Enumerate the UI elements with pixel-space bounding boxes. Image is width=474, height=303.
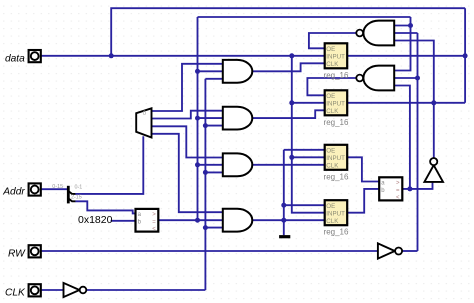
svg-text:CLK: CLK <box>326 108 339 115</box>
pin CLK <box>5 284 41 298</box>
node comp2 out junction <box>407 186 412 191</box>
wire reg2 out <box>347 102 465 104</box>
svg-text:>: > <box>152 212 156 218</box>
wire nand1 in2 <box>394 32 417 34</box>
svg-text:reg_16: reg_16 <box>324 71 349 80</box>
node gate3 mid junction <box>195 162 200 167</box>
wire gate3 top feed <box>152 126 223 157</box>
wire clkgate vertical <box>204 79 206 290</box>
svg-text:INPUT: INPUT <box>326 101 345 108</box>
wire CLK inverted <box>86 289 205 291</box>
comparator U2 <box>379 177 402 201</box>
wire gate3 out <box>252 164 324 166</box>
wire reg4 out to comp <box>347 189 379 213</box>
node reg2 input junction <box>289 100 294 105</box>
wire match top <box>198 16 411 18</box>
and gate U4 <box>223 107 253 130</box>
wire gate2 out <box>252 110 324 118</box>
node gate2 mid junction <box>195 116 200 121</box>
wire splitter leg1 to decoder select <box>75 136 143 194</box>
wire reg3 out to comp <box>347 157 379 181</box>
svg-text:data: data <box>5 53 25 64</box>
svg-text:reg_16: reg_16 <box>324 172 349 181</box>
wire reg4 OE gnd <box>284 204 325 206</box>
register REG4 <box>324 200 349 237</box>
svg-text:INPUT: INPUT <box>326 54 345 61</box>
register REG2 <box>324 90 349 127</box>
svg-text:OE: OE <box>326 93 335 100</box>
svg-text:OE: OE <box>326 46 335 53</box>
pin Addr <box>2 183 41 197</box>
svg-text:CLK: CLK <box>326 163 339 170</box>
wire gate1 top feed <box>152 64 223 111</box>
svg-text:reg_16: reg_16 <box>324 228 349 237</box>
wire reg2 input <box>292 102 325 104</box>
svg-text:Addr: Addr <box>2 187 25 198</box>
wire gate1 out <box>252 63 324 71</box>
svg-text:0x1820: 0x1820 <box>78 214 113 226</box>
svg-text:OE: OE <box>326 203 335 210</box>
svg-text:OE: OE <box>326 148 335 155</box>
wire gate2 bot feed <box>205 125 222 127</box>
node gnd gate4out junction <box>281 218 286 223</box>
wire nand2 in2 riser <box>417 33 419 251</box>
wire gate2 mid feed <box>198 117 223 119</box>
svg-text:reg_16: reg_16 <box>324 118 349 127</box>
svg-text:0-15: 0-15 <box>52 184 63 190</box>
wire gate2 top feed <box>152 111 223 119</box>
inverter U10 RW <box>378 243 402 258</box>
wire reg1 out <box>347 55 465 57</box>
node gate4 mid junction <box>195 218 200 223</box>
inverter U9 facing up <box>424 158 443 182</box>
node reg4 OE junction <box>281 203 286 208</box>
wire data right riser <box>464 8 466 103</box>
wire nand2 in2 <box>394 77 417 79</box>
comparator U1 <box>136 209 159 233</box>
wire gate4 out <box>252 219 324 221</box>
svg-text:2-15: 2-15 <box>71 195 82 201</box>
node gate2 bot junction <box>203 123 208 128</box>
wire nand1 in1 <box>394 25 410 27</box>
node data riser junction <box>109 53 114 58</box>
wire gate3 mid feed <box>198 164 223 166</box>
wire reg3 input <box>292 156 325 158</box>
wire comp2 out <box>402 182 432 189</box>
wire data horizontal <box>41 55 325 57</box>
wire splitter leg2 to comp1 a <box>75 201 135 213</box>
svg-text:<: < <box>396 195 400 201</box>
wire nand1 out to reg1 OE <box>309 33 356 48</box>
wire nand2 out to reg2 OE <box>307 78 356 95</box>
svg-text:CLK: CLK <box>326 218 339 225</box>
svg-text:=: = <box>152 219 156 225</box>
node nand1 in1 junction <box>408 23 413 28</box>
wire Addr <box>41 188 68 190</box>
wire const to comp1 b <box>111 220 136 222</box>
pin data <box>5 50 41 64</box>
node nand2 in2 junction <box>415 76 420 81</box>
svg-text:INPUT: INPUT <box>326 155 345 162</box>
wire nand1 in1 riser <box>394 17 410 71</box>
wire notup out <box>394 41 434 158</box>
wire reg3 OE gnd <box>284 149 325 151</box>
node gate1 mid junction <box>195 69 200 74</box>
node reg3 input junction <box>289 155 294 160</box>
svg-text:>: > <box>396 181 400 187</box>
JUNCTIONS_LAYER <box>109 23 468 230</box>
inverter U11 CLK <box>64 283 87 297</box>
wire RW <box>41 250 378 252</box>
svg-text:<: < <box>152 227 156 233</box>
wire gate4 bot feed <box>205 227 222 229</box>
svg-text:CLK: CLK <box>326 61 339 68</box>
and gate U3 <box>223 60 253 83</box>
decoder DEC1 <box>136 108 151 137</box>
nand gate U8 <box>356 66 394 91</box>
svg-text:INPUT: INPUT <box>326 211 345 218</box>
wire gate1 bot feed <box>205 78 222 80</box>
wire CLK <box>41 289 64 291</box>
register REG3 <box>324 145 349 182</box>
node gate3 bot junction <box>203 170 208 175</box>
wire rw inverter out <box>403 250 418 252</box>
wire nand2 in3 <box>394 86 410 189</box>
node reg1 out junction <box>463 53 468 58</box>
register REG1 <box>324 43 349 80</box>
node reg input data junction <box>289 53 294 58</box>
pin RW <box>8 245 41 259</box>
svg-text:CLK: CLK <box>5 288 26 299</box>
node reg2 out notup junction <box>431 100 436 105</box>
wire match vertical <box>197 17 199 220</box>
wire gate3 bot feed <box>205 171 222 173</box>
svg-text:0-1: 0-1 <box>75 184 83 190</box>
wire gnd vertical <box>283 150 285 236</box>
and gate U5 <box>223 153 253 176</box>
wire gate4 mid feed <box>158 219 222 221</box>
wire gate4 top feed <box>152 134 223 212</box>
ground <box>279 235 290 238</box>
svg-text:=: = <box>396 188 400 194</box>
node gate4 bot junction <box>203 225 208 230</box>
splitter SP1 <box>52 184 82 203</box>
wire gate1 mid feed <box>198 70 223 72</box>
svg-text:RW: RW <box>8 249 26 260</box>
nand gate U7 <box>356 21 394 46</box>
wire data riser left <box>111 8 465 56</box>
and gate U6 <box>223 209 253 232</box>
wire reg input riser <box>292 56 325 213</box>
